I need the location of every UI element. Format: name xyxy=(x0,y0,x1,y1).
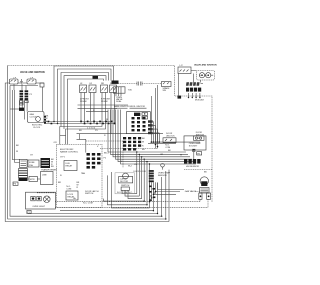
label pin column left xyxy=(77,182,80,189)
svg-text:OR: OR xyxy=(54,142,58,144)
door latch switch text xyxy=(166,133,175,137)
svg-text:DOOR LOCK: DOOR LOCK xyxy=(134,171,147,173)
svg-text:OR: OR xyxy=(160,154,164,156)
wire gas valve label dash xyxy=(196,191,200,193)
wire pilot to left bus xyxy=(10,108,19,110)
wire erc feed U link xyxy=(60,134,66,136)
svg-text:1A: 1A xyxy=(73,197,76,200)
wire bottom nest 2 xyxy=(125,154,139,196)
wire right dashed return 2 xyxy=(55,199,208,207)
svg-text:Y: Y xyxy=(121,161,123,163)
pressure switch S1 xyxy=(9,79,18,84)
door lock assembly outline xyxy=(115,173,135,194)
connector P2 grid xyxy=(87,153,101,169)
capacitor C1 xyxy=(137,82,161,86)
svg-text:SWITCH: SWITCH xyxy=(85,193,94,195)
wire top chassis run L1 xyxy=(8,66,212,203)
fuse F1 box xyxy=(20,159,28,167)
connector DSI pilot stack xyxy=(20,90,29,100)
wire relay K2 bottom pins xyxy=(116,93,121,96)
svg-text:P2: P2 xyxy=(104,158,107,160)
label ignitor broil xyxy=(130,106,147,108)
svg-text:R: R xyxy=(104,135,106,137)
wire bottom nest 5 xyxy=(107,162,147,205)
junction box J2 under transformer xyxy=(41,172,54,185)
node junction dots on clock feed xyxy=(53,121,115,125)
svg-text:BU: BU xyxy=(79,130,82,132)
ground symbol G1 xyxy=(20,79,23,84)
control board ERC dashed border xyxy=(57,144,103,207)
svg-text:MOTOR: MOTOR xyxy=(120,181,128,183)
wire center vertical bus 1 xyxy=(108,110,186,153)
label ignitor bake xyxy=(114,105,129,108)
label wire colors sprinkled xyxy=(16,110,207,184)
wire top harness bus E xyxy=(68,79,104,120)
wire center vertical bus 6 xyxy=(121,110,197,165)
svg-text:P1: P1 xyxy=(30,94,33,96)
svg-text:W: W xyxy=(106,119,108,121)
wire dashed spark run xyxy=(118,83,137,85)
svg-text:SENSOR: SENSOR xyxy=(158,175,167,177)
wire r1 drop xyxy=(10,86,43,112)
wire bottom nest 6 xyxy=(112,164,150,208)
wire top harness bus D xyxy=(64,76,106,118)
resistor R1 small xyxy=(40,83,44,87)
svg-text:TAN: TAN xyxy=(81,172,86,175)
svg-text:N.O. COM N.C.: N.O. COM N.C. xyxy=(117,192,133,194)
latch contact box xyxy=(163,138,176,143)
svg-text:DUAL: DUAL xyxy=(116,100,122,103)
svg-text:TOD: TOD xyxy=(128,90,133,92)
relay board right terminals xyxy=(148,120,153,134)
svg-text:FUSE: FUSE xyxy=(29,162,35,164)
svg-text:3100W: 3100W xyxy=(80,101,87,103)
svg-text:GY: GY xyxy=(30,155,34,157)
svg-text:VALVE AND IGNITION: VALVE AND IGNITION xyxy=(194,64,217,67)
connector tag P8 xyxy=(197,152,202,156)
svg-text:BK: BK xyxy=(46,116,49,118)
wire top harness bus A xyxy=(54,66,114,114)
wire latch rail xyxy=(155,141,200,143)
clock motor M1 box xyxy=(28,112,45,123)
wire ignitor link row 1 xyxy=(78,104,129,106)
svg-text:MTR: MTR xyxy=(30,179,35,181)
svg-text:LINE: LINE xyxy=(42,175,47,177)
label sensor caption xyxy=(158,172,171,176)
connector P1 grid xyxy=(123,137,141,151)
wire sensor dashed top xyxy=(184,169,212,171)
gas valve assembly V1 xyxy=(199,177,211,200)
wire erc top rail xyxy=(77,134,87,140)
wire center vertical bus 4 xyxy=(116,110,193,160)
wire top harness bus C xyxy=(61,73,109,117)
wire center vertical bus 5 xyxy=(118,110,194,162)
svg-text:W: W xyxy=(16,151,18,153)
wire switch drops right pair xyxy=(60,93,115,145)
svg-text:N.C. COM: N.C. COM xyxy=(83,203,93,205)
wire bottom nest 3 xyxy=(128,157,142,199)
wire bottom nest 8 xyxy=(28,183,158,214)
svg-text:3100W: 3100W xyxy=(101,101,108,103)
label connector P3 row xyxy=(87,127,98,132)
wire left run L2 xyxy=(8,66,166,220)
lamp symbol near sensor xyxy=(161,164,165,170)
svg-text:UNLOCK: UNLOCK xyxy=(166,135,175,137)
oven light box OL xyxy=(26,192,56,209)
wire valve feed W2 xyxy=(15,90,20,163)
label infinite switch row top xyxy=(80,83,114,85)
node fuse ladder blob xyxy=(19,178,28,181)
relay board K1 header xyxy=(134,113,140,116)
wire relay terminals to latch rail xyxy=(153,122,160,143)
svg-text:HSI SENSOR: HSI SENSOR xyxy=(186,166,199,168)
svg-text:R: R xyxy=(77,187,79,189)
svg-text:VALVE AND IGNITION: VALVE AND IGNITION xyxy=(20,71,45,74)
switch S9 small xyxy=(178,67,191,74)
wire switch drops to clock feed xyxy=(81,93,94,124)
wire ignitor link row 3 xyxy=(86,111,108,113)
svg-text:W: W xyxy=(142,142,144,144)
wire sensor bundle to right 2 xyxy=(156,191,181,193)
svg-text:L.P.: L.P. xyxy=(180,65,184,67)
svg-text:COM: COM xyxy=(66,189,71,191)
wire latch verticals xyxy=(151,85,157,149)
label clock terminals xyxy=(46,116,49,123)
connector tag P6 xyxy=(13,182,18,186)
infinite switch S3 xyxy=(80,85,87,93)
node latch rail dots xyxy=(153,141,161,143)
spark module SM1 xyxy=(197,71,215,81)
label latch caption 2 xyxy=(165,144,170,148)
svg-text:BROIL IGNITOR: BROIL IGNITOR xyxy=(130,106,146,108)
wire sensor bundle to right 1 xyxy=(158,189,185,191)
door switch DS1 xyxy=(194,136,205,140)
node bus crossing dots xyxy=(136,151,150,164)
lock motor M2 xyxy=(119,173,133,183)
svg-text:RELAY: RELAY xyxy=(66,165,73,168)
label scattered wire tags 2 xyxy=(60,150,171,177)
wire right dashed return 1 xyxy=(55,199,200,201)
connector lamp bottom xyxy=(193,149,195,159)
terminal strip TB2 bottom right xyxy=(184,159,201,164)
svg-text:BK-1: BK-1 xyxy=(104,153,109,155)
wire bottom nest 7 xyxy=(60,190,153,211)
connector P4 sensor ladder xyxy=(149,170,154,179)
node pilot connector blob xyxy=(19,108,24,111)
connector P1 pin labels xyxy=(142,138,145,151)
node harness connector blob CN1 xyxy=(112,81,119,84)
svg-text:BU: BU xyxy=(51,166,54,168)
node sensor ladder blob xyxy=(149,180,154,182)
wire bus ends into clock xyxy=(54,114,68,145)
label latch caption xyxy=(85,190,99,195)
node bottom nest junction dots xyxy=(144,200,167,219)
svg-text:BAKE IGNITOR: BAKE IGNITOR xyxy=(114,105,129,108)
wire valve feed W1 xyxy=(12,90,19,160)
oven lamp box LAMP1 xyxy=(184,136,206,150)
svg-text:BK: BK xyxy=(204,172,207,174)
connector tag P7 xyxy=(27,210,31,214)
svg-text:W: W xyxy=(180,155,182,157)
wire sensor risers xyxy=(162,170,169,222)
label k3 pins xyxy=(66,186,71,191)
wire top harness bus B xyxy=(58,69,112,115)
wire latch dashed rail 2 xyxy=(100,148,157,150)
svg-text:SOCKET: SOCKET xyxy=(189,145,198,147)
svg-text:GY V: GY V xyxy=(60,157,66,159)
wire breaker link xyxy=(28,178,41,180)
svg-text:BR: BR xyxy=(58,182,61,184)
terminal block TB1 row2 xyxy=(186,88,201,92)
svg-text:COM: COM xyxy=(165,147,170,149)
wire sensor bundle to right 3 xyxy=(154,193,177,195)
relay box K2 xyxy=(114,87,126,93)
wire spark module link xyxy=(191,71,201,83)
wire center vertical bus 3 xyxy=(113,110,190,157)
node TB1 drop dots xyxy=(188,97,201,98)
wire left chassis run N xyxy=(5,83,169,222)
svg-text:MODULE: MODULE xyxy=(195,100,205,102)
relay board K1 outline xyxy=(126,111,150,133)
terminal block TB1 row1 xyxy=(186,82,200,86)
wire lock-area top rail xyxy=(77,133,164,135)
infinite switch S6 xyxy=(110,85,117,93)
svg-text:BK: BK xyxy=(16,145,19,147)
connector P5 fuse ladder left xyxy=(19,169,28,178)
svg-text:15A: 15A xyxy=(29,164,33,167)
wire door rail xyxy=(148,143,176,145)
label door switch xyxy=(196,132,205,136)
wire dashed erc to light xyxy=(37,192,57,194)
svg-text:W-2: W-2 xyxy=(128,166,133,168)
wire ignitor link row 2 xyxy=(78,107,118,109)
junction box J1 xyxy=(28,160,39,167)
wire clock feed lower xyxy=(44,123,115,125)
relay K3 box xyxy=(64,161,77,171)
svg-text:BK: BK xyxy=(168,150,171,152)
wire left run BK xyxy=(10,86,162,217)
svg-text:OVEN LIGHT: OVEN LIGHT xyxy=(32,206,45,208)
transformer T1 core xyxy=(41,158,51,168)
svg-text:BK: BK xyxy=(142,138,145,140)
switch S8 box xyxy=(121,187,129,190)
wire s9 left drop xyxy=(178,74,180,98)
label switch row bottom 1 xyxy=(80,98,90,102)
node clock terminal dots xyxy=(44,116,52,124)
label switch row bottom 2 xyxy=(101,98,111,102)
svg-text:N: N xyxy=(60,175,62,177)
spark switch S7 xyxy=(162,82,172,93)
svg-text:1 2 3 4 5: 1 2 3 4 5 xyxy=(87,127,96,129)
svg-text:TRANSFORMER: TRANSFORMER xyxy=(41,168,58,171)
valve switch S2 xyxy=(27,79,36,84)
svg-text:V: V xyxy=(97,146,99,148)
relay K4 box xyxy=(66,191,78,200)
sensor boxes CT xyxy=(142,113,148,120)
infinite switch S4 xyxy=(89,85,96,93)
wire valve row link xyxy=(14,83,44,90)
label erc caption xyxy=(60,149,79,154)
wire center vertical bus 2 xyxy=(111,110,189,155)
wire latch dashed rail xyxy=(86,141,123,168)
wire lock vertical a xyxy=(85,139,87,152)
connector pilot stack lower rows xyxy=(20,101,29,105)
node latch dots column xyxy=(151,141,159,147)
svg-text:SW: SW xyxy=(163,90,166,92)
wire sensor bundle verticals xyxy=(150,182,158,201)
wire TB1 dash xyxy=(201,83,204,85)
svg-text:P3: P3 xyxy=(95,130,98,132)
wire clock feed upper xyxy=(44,121,111,123)
node sensor bundle dots xyxy=(149,186,157,203)
label transformer leads xyxy=(51,159,54,168)
infinite switch S5 xyxy=(101,85,108,93)
svg-text:R: R xyxy=(142,145,144,147)
svg-text:CLOCK: CLOCK xyxy=(33,127,41,129)
label relay box stack xyxy=(116,97,123,103)
wire bottom nest 4 xyxy=(103,159,144,201)
relay board K1 contact grid xyxy=(132,117,146,131)
wire bottom nest 1 xyxy=(122,152,137,194)
breaker box B1 xyxy=(29,177,37,182)
node harness connector blob CN2 xyxy=(93,76,99,79)
svg-text:RANGE CONTROL: RANGE CONTROL xyxy=(60,151,79,154)
svg-text:GAS VALVE: GAS VALVE xyxy=(185,190,197,193)
connector on chassis dashed wire xyxy=(178,96,182,99)
wire TB1 drops xyxy=(189,93,200,98)
wire pilot stack drops xyxy=(20,99,27,120)
svg-text:BU: BU xyxy=(142,149,145,151)
